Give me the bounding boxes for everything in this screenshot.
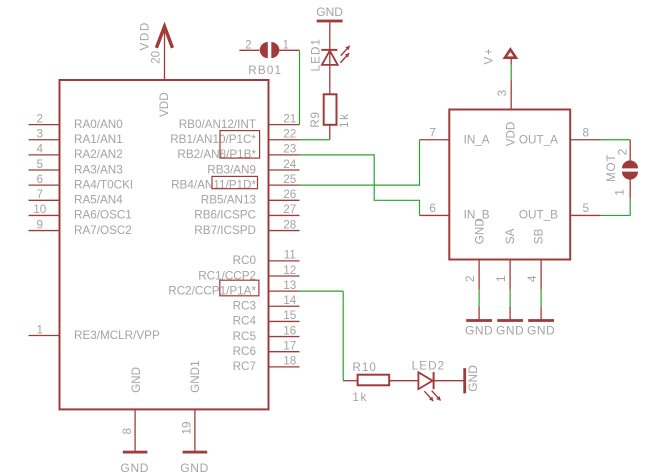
svg-text:7: 7 (429, 126, 436, 139)
svg-text:25: 25 (283, 173, 297, 186)
svg-text:14: 14 (283, 294, 297, 307)
svg-text:4: 4 (37, 143, 44, 156)
svg-text:V+: V+ (483, 47, 496, 64)
svg-text:20: 20 (150, 50, 163, 64)
svg-text:28: 28 (283, 218, 296, 231)
svg-text:5: 5 (37, 158, 44, 171)
svg-text:1: 1 (495, 275, 508, 282)
svg-text:8: 8 (121, 428, 134, 435)
svg-text:RB6/ICSPC: RB6/ICSPC (194, 209, 256, 222)
svg-text:VDD: VDD (158, 92, 171, 117)
svg-text:24: 24 (283, 158, 297, 171)
svg-text:RC7: RC7 (233, 360, 256, 373)
svg-text:RB4/AN11/P1D*: RB4/AN11/P1D* (171, 178, 256, 191)
svg-text:RB3/AN9: RB3/AN9 (207, 163, 256, 176)
svg-text:RA0/AN0: RA0/AN0 (74, 118, 123, 131)
svg-text:VDD: VDD (139, 21, 152, 50)
svg-text:1: 1 (283, 39, 290, 52)
svg-text:11: 11 (284, 249, 296, 262)
svg-text:1: 1 (37, 323, 44, 336)
svg-text:10: 10 (33, 203, 47, 216)
svg-text:MOT: MOT (605, 154, 618, 182)
svg-text:OUT_B: OUT_B (519, 209, 558, 222)
svg-text:6: 6 (37, 173, 44, 186)
svg-text:GND: GND (180, 461, 209, 475)
svg-text:6: 6 (429, 202, 436, 215)
svg-text:RB2/AN8/P1B*: RB2/AN8/P1B* (177, 148, 256, 161)
svg-text:RA7/OSC2: RA7/OSC2 (74, 224, 132, 237)
svg-text:OUT_A: OUT_A (519, 133, 558, 146)
svg-text:12: 12 (283, 264, 296, 277)
svg-text:1k: 1k (352, 391, 368, 404)
svg-text:GND: GND (316, 5, 343, 19)
svg-text:RA1/AN1: RA1/AN1 (74, 133, 123, 146)
svg-text:4: 4 (526, 275, 539, 282)
svg-text:LED2: LED2 (412, 360, 446, 373)
svg-text:RB5/AN13: RB5/AN13 (201, 194, 256, 207)
svg-text:15: 15 (283, 309, 297, 322)
svg-text:19: 19 (181, 421, 194, 434)
svg-text:LED1: LED1 (310, 38, 323, 72)
svg-text:2: 2 (245, 39, 252, 52)
svg-text:RC4: RC4 (233, 315, 257, 328)
svg-text:16: 16 (283, 324, 296, 337)
svg-text:GND: GND (527, 324, 555, 338)
svg-text:21: 21 (283, 112, 296, 125)
svg-text:RC0: RC0 (233, 254, 257, 267)
svg-text:GND: GND (130, 367, 143, 393)
svg-text:RC3: RC3 (233, 300, 256, 313)
svg-text:RE3/MCLR/VPP: RE3/MCLR/VPP (74, 329, 160, 342)
svg-text:2: 2 (37, 112, 44, 125)
svg-text:2: 2 (617, 149, 630, 156)
svg-text:RA2/AN2: RA2/AN2 (74, 148, 123, 161)
svg-text:RB0/AN12/INT: RB0/AN12/INT (179, 118, 256, 131)
svg-text:8: 8 (583, 126, 590, 139)
svg-text:3: 3 (496, 90, 509, 97)
svg-text:RB01: RB01 (248, 64, 282, 77)
svg-text:GND: GND (465, 324, 493, 338)
svg-text:IN_A: IN_A (464, 133, 490, 146)
svg-text:RB7/ICSPD: RB7/ICSPD (194, 224, 256, 237)
svg-text:18: 18 (283, 355, 296, 368)
svg-text:5: 5 (583, 202, 590, 215)
svg-text:RA6/OSC1: RA6/OSC1 (74, 209, 132, 222)
svg-text:23: 23 (283, 143, 296, 156)
svg-text:1k: 1k (338, 112, 351, 128)
svg-text:RA4/T0CKI: RA4/T0CKI (74, 178, 133, 191)
svg-text:27: 27 (283, 203, 296, 216)
svg-text:RA5/AN4: RA5/AN4 (74, 194, 123, 207)
svg-text:SB: SB (532, 228, 545, 244)
svg-text:9: 9 (37, 218, 44, 231)
svg-text:GND: GND (496, 324, 524, 338)
svg-text:1: 1 (613, 189, 626, 196)
svg-text:13: 13 (283, 279, 296, 292)
svg-text:7: 7 (37, 188, 44, 201)
svg-text:VDD: VDD (505, 122, 518, 147)
svg-text:GND: GND (473, 218, 486, 244)
svg-text:26: 26 (283, 188, 296, 201)
svg-text:R9: R9 (309, 111, 322, 128)
svg-text:SA: SA (504, 228, 517, 244)
svg-text:R10: R10 (352, 361, 376, 374)
svg-text:GND: GND (120, 461, 149, 475)
svg-text:3: 3 (37, 128, 44, 141)
svg-text:GND1: GND1 (189, 360, 202, 392)
svg-text:2: 2 (464, 275, 477, 282)
svg-text:RA3/AN3: RA3/AN3 (74, 163, 123, 176)
svg-text:22: 22 (283, 128, 296, 141)
svg-text:GND: GND (466, 365, 480, 392)
svg-text:RC5: RC5 (233, 330, 257, 343)
svg-text:RB1/AN10/P1C*: RB1/AN10/P1C* (170, 133, 256, 146)
svg-text:RC6: RC6 (233, 345, 256, 358)
svg-text:17: 17 (283, 340, 296, 353)
